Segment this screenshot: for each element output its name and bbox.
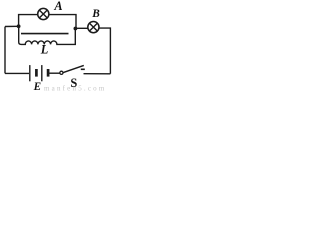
svg-text:A: A	[53, 0, 62, 13]
battery plate short thick 2	[47, 69, 50, 77]
svg-text:B: B	[91, 8, 100, 20]
inductor L lead down from node1 and coil 5 humps	[19, 26, 76, 44]
wire left edge to battery	[5, 72, 29, 74]
inductor core line	[21, 33, 69, 35]
wire lamp A right to corner, down to node2	[49, 15, 76, 29]
node junction dot node2	[74, 27, 78, 31]
battery plate long 1	[29, 65, 31, 81]
wire node2 to lamp B	[75, 27, 88, 29]
svg-text:manfen5.com: manfen5.com	[44, 84, 107, 92]
battery plate short thick 1	[35, 69, 38, 77]
switch fixed contact dash	[81, 68, 85, 70]
lamp A	[38, 8, 49, 19]
wire top-left: from node1 up and right to lamp A	[19, 15, 38, 26]
lamp B	[88, 22, 99, 33]
wire node1 to left edge	[5, 25, 19, 27]
wire battery to switch	[49, 72, 60, 74]
svg-text:L: L	[40, 43, 49, 57]
wire left vertical	[4, 27, 6, 74]
wire bottom-right: corner to switch contact	[84, 73, 111, 75]
node junction dot node1	[17, 24, 21, 28]
battery plate long 2	[41, 65, 43, 81]
svg-text:E: E	[33, 81, 41, 92]
switch blade	[63, 65, 84, 72]
switch pivot circle	[60, 71, 63, 74]
wire lamp B right to corner, down right edge	[99, 28, 111, 74]
